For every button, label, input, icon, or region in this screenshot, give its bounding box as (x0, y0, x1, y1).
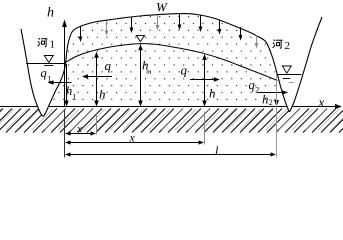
q flow arrow left (82, 74, 112, 79)
river 1 right bank (44, 57, 67, 117)
label 河2 (273, 40, 290, 52)
label 河1 (38, 38, 55, 50)
q flow arrow right (190, 77, 220, 82)
q2 flow arrow (258, 90, 289, 95)
svg-text:h: h (262, 92, 269, 107)
svg-text:q: q (181, 63, 188, 78)
svg-text:1: 1 (48, 75, 52, 84)
svg-text:x: x (318, 95, 325, 110)
svg-text:h: h (66, 83, 73, 98)
svg-text:h: h (209, 86, 216, 101)
hatched bedrock below x-axis (0, 109, 343, 133)
divide water level triangle (136, 35, 144, 41)
reference tick at x (left) (96, 114, 98, 135)
dimension x small (65, 131, 96, 135)
dimension reference line below origin (64, 110, 66, 158)
water table curve (65, 44, 278, 81)
h_m measure arrow at divide (138, 44, 143, 106)
svg-text:2: 2 (269, 98, 273, 107)
aquifer stipple dots (44, 16, 290, 100)
dimension x large (65, 140, 204, 144)
river 1 water line (26, 63, 65, 65)
h1 measure arrow (64, 64, 69, 107)
river 1 water level symbol (44, 56, 53, 63)
svg-text:2: 2 (285, 40, 291, 52)
svg-text:1: 1 (73, 93, 77, 102)
h measure arrow left (at x) (94, 52, 99, 107)
h measure arrow right (at x) (202, 54, 207, 107)
svg-text:h: h (99, 87, 106, 102)
river 1 left bank (21, 29, 44, 117)
W infiltration arrows (79, 14, 259, 49)
river 2 right bank (290, 17, 323, 112)
svg-text:q: q (41, 66, 47, 80)
svg-text:W: W (156, 0, 168, 15)
svg-text:q: q (105, 58, 112, 73)
svg-text:m: m (146, 69, 151, 76)
dimension l (65, 152, 276, 156)
svg-text:x: x (129, 131, 136, 145)
q1 flow arrow (48, 80, 72, 85)
svg-text:1: 1 (50, 39, 56, 51)
svg-text:2: 2 (255, 86, 259, 95)
reference line at river 2 edge (l) (276, 75, 278, 158)
x axis (0, 104, 342, 109)
svg-text:h: h (47, 6, 54, 21)
ground surface dome + river2 left bank (66, 14, 289, 112)
svg-text:x: x (76, 123, 82, 135)
river 2 water line (277, 74, 302, 76)
reference line at x (right) (204, 112, 206, 145)
h2 measure arrow (274, 100, 279, 107)
river 2 water level symbol (282, 66, 291, 73)
svg-text:q: q (249, 78, 255, 92)
h axis (62, 20, 67, 107)
river 2 channel interior (266, 17, 322, 112)
river 1 channel interior (21, 29, 66, 117)
